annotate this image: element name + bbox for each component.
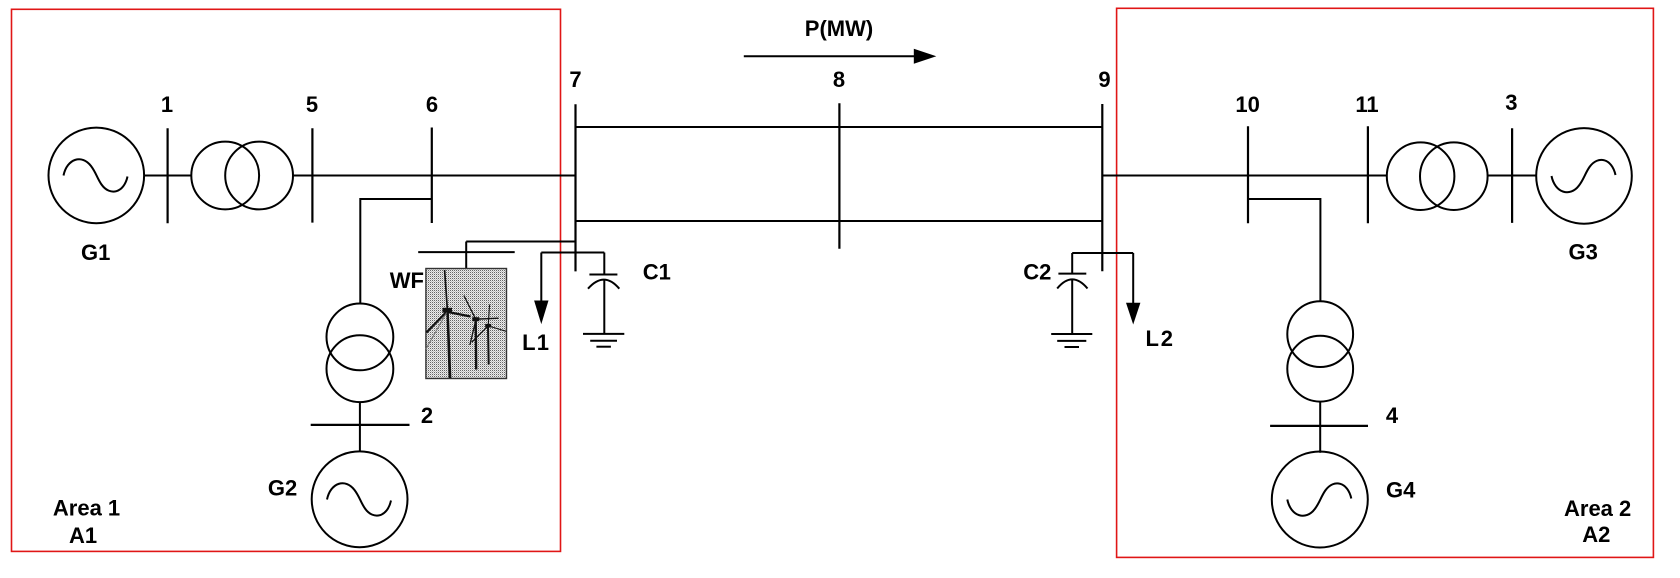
svg-text:WF: WF xyxy=(390,268,424,293)
svg-text:G2: G2 xyxy=(268,476,297,501)
svg-text:2: 2 xyxy=(421,403,433,428)
svg-text:G3: G3 xyxy=(1569,240,1598,265)
svg-text:P(MW): P(MW) xyxy=(805,16,873,41)
svg-text:L1: L1 xyxy=(522,330,550,355)
svg-text:G4: G4 xyxy=(1386,478,1416,503)
svg-text:A2: A2 xyxy=(1582,522,1610,547)
svg-text:G1: G1 xyxy=(81,240,110,265)
svg-text:C2: C2 xyxy=(1023,260,1051,285)
svg-text:8: 8 xyxy=(833,67,845,92)
svg-text:7: 7 xyxy=(569,67,581,92)
svg-text:10: 10 xyxy=(1235,92,1259,117)
svg-text:Area 1: Area 1 xyxy=(53,496,120,521)
svg-text:11: 11 xyxy=(1355,92,1378,117)
svg-text:Area 2: Area 2 xyxy=(1564,496,1631,521)
svg-text:6: 6 xyxy=(426,92,438,117)
svg-text:1: 1 xyxy=(161,92,173,117)
svg-text:5: 5 xyxy=(306,92,318,117)
svg-text:L2: L2 xyxy=(1146,326,1175,351)
svg-text:C1: C1 xyxy=(643,260,671,285)
svg-text:4: 4 xyxy=(1386,403,1399,428)
svg-text:3: 3 xyxy=(1505,90,1517,115)
svg-text:A1: A1 xyxy=(69,523,97,548)
svg-text:9: 9 xyxy=(1098,67,1110,92)
